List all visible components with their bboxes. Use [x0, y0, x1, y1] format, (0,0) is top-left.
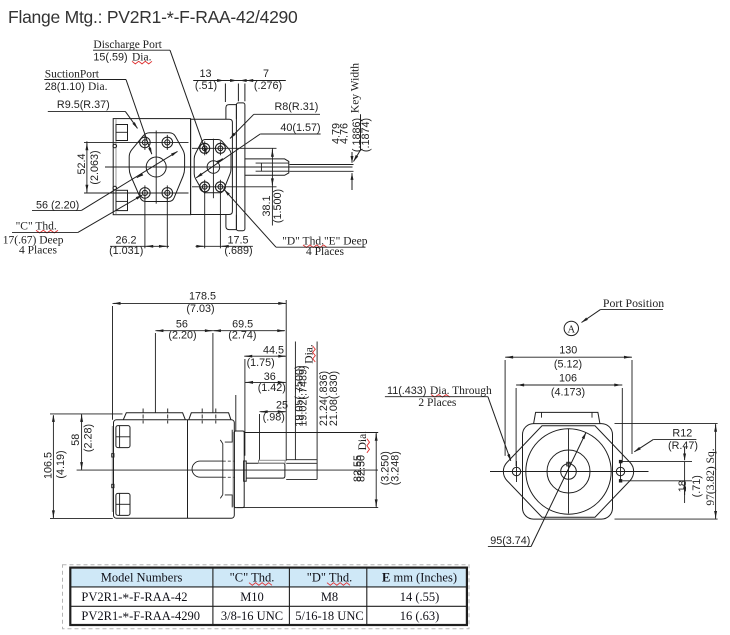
svg-text:Port Position: Port Position [603, 296, 664, 310]
svg-text:82.50: 82.50 [356, 455, 368, 482]
svg-text:Dia.: Dia. [88, 81, 108, 93]
svg-text:4 Places: 4 Places [19, 245, 58, 257]
svg-text:Key Width: Key Width [350, 63, 362, 113]
svg-text:178.5: 178.5 [189, 290, 216, 302]
svg-text:130: 130 [559, 344, 577, 356]
svg-text:Dia.: Dia. [357, 431, 369, 451]
svg-text:Model Numbers: Model Numbers [101, 571, 183, 585]
svg-text:(.71): (.71) [691, 475, 703, 497]
svg-text:18: 18 [677, 480, 689, 492]
svg-text:58: 58 [70, 434, 82, 446]
svg-text:13: 13 [199, 68, 211, 80]
svg-text:"C" Thd.: "C" Thd. [230, 571, 275, 585]
svg-text:SuctionPort: SuctionPort [45, 69, 100, 81]
svg-text:21.08(.830): 21.08(.830) [328, 371, 340, 426]
svg-text:(4.173): (4.173) [551, 387, 585, 399]
svg-text:R8(R.31): R8(R.31) [275, 101, 319, 113]
svg-text:A: A [568, 324, 576, 335]
svg-text:40(1.57): 40(1.57) [280, 122, 320, 134]
svg-text:4 Places: 4 Places [306, 246, 345, 258]
svg-text:(1.500): (1.500) [272, 189, 284, 223]
svg-text:44.5: 44.5 [263, 345, 284, 357]
svg-text:Flange Mtg.: PV2R1-*-F-RAA-42/: Flange Mtg.: PV2R1-*-F-RAA-42/4290 [8, 7, 298, 29]
svg-text:E mm (Inches): E mm (Inches) [382, 571, 457, 585]
svg-text:36: 36 [264, 371, 276, 383]
svg-text:PV2R1-*-F-RAA-4290: PV2R1-*-F-RAA-4290 [81, 609, 200, 625]
svg-text:PV2R1-*-F-RAA-42: PV2R1-*-F-RAA-42 [81, 590, 187, 606]
svg-text:14 (.55): 14 (.55) [400, 590, 440, 604]
svg-text:15(.59): 15(.59) [93, 52, 127, 64]
svg-text:(.276): (.276) [254, 80, 282, 92]
svg-text:M10: M10 [240, 590, 264, 604]
svg-text:7: 7 [263, 68, 269, 80]
svg-text:52.4: 52.4 [76, 153, 88, 174]
svg-text:R12: R12 [672, 428, 692, 440]
svg-text:(1.75): (1.75) [247, 357, 275, 369]
svg-text:19.02(.7489): 19.02(.7489) [298, 365, 310, 426]
svg-text:"D" Thd.: "D" Thd. [307, 571, 352, 585]
svg-text:R9.5(R.37): R9.5(R.37) [57, 99, 110, 111]
svg-text:Dia.: Dia. [132, 52, 152, 64]
svg-text:11(.433): 11(.433) [387, 385, 426, 397]
svg-text:(2.74): (2.74) [228, 329, 256, 341]
svg-text:2 Places: 2 Places [418, 397, 457, 409]
svg-text:4.76: 4.76 [339, 123, 351, 144]
svg-text:(2.063): (2.063) [89, 150, 101, 184]
svg-text:(.51): (.51) [195, 80, 217, 92]
svg-text:97(3.82) Sq.: 97(3.82) Sq. [705, 448, 717, 505]
svg-text:Discharge Port: Discharge Port [93, 39, 162, 51]
svg-text:95(3.74): 95(3.74) [490, 535, 530, 547]
svg-text:(.1874): (.1874) [360, 118, 372, 152]
svg-text:(R.47): (R.47) [668, 440, 698, 452]
svg-text:(3.248): (3.248) [389, 451, 401, 485]
svg-text:56 (2.20): 56 (2.20) [36, 200, 79, 212]
svg-text:(2.28): (2.28) [83, 424, 95, 452]
svg-text:M8: M8 [321, 590, 338, 604]
svg-text:106.5: 106.5 [43, 452, 55, 479]
svg-text:16 (.63): 16 (.63) [400, 609, 440, 623]
svg-text:(1.42): (1.42) [258, 382, 286, 394]
svg-text:(.689): (.689) [224, 245, 252, 257]
svg-text:28(1.10): 28(1.10) [45, 81, 85, 93]
svg-text:(1.031): (1.031) [109, 245, 143, 257]
svg-text:5/16-18 UNC: 5/16-18 UNC [295, 609, 363, 623]
svg-text:106: 106 [559, 373, 577, 385]
svg-text:(2.20): (2.20) [168, 329, 196, 341]
svg-text:3/8-16 UNC: 3/8-16 UNC [221, 609, 283, 623]
svg-text:(.98): (.98) [263, 412, 285, 424]
svg-text:(5.12): (5.12) [554, 359, 582, 371]
svg-text:(7.03): (7.03) [186, 303, 214, 315]
svg-text:(4.19): (4.19) [55, 450, 67, 478]
